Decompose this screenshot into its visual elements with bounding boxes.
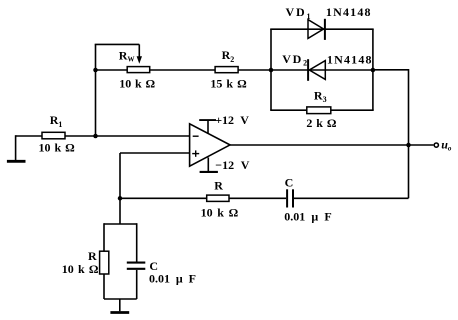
wire [408, 69, 410, 198]
wire [120, 197, 286, 199]
node output [406, 143, 411, 148]
wire [136, 223, 138, 261]
wire [15, 135, 17, 160]
wire [119, 299, 121, 311]
wire [104, 298, 137, 300]
svg-text:2 k Ω: 2 k Ω [306, 116, 336, 130]
svg-text:C: C [285, 176, 294, 190]
wire [270, 29, 272, 110]
svg-text:0.01 μ F: 0.01 μ F [284, 210, 332, 224]
svg-text:−12 V: −12 V [215, 158, 249, 172]
wire [136, 270, 138, 299]
resistor R1 [42, 132, 65, 139]
node inverting input [93, 134, 98, 139]
svg-text:+12 V: +12 V [215, 113, 249, 127]
wire [373, 69, 409, 71]
svg-text:15 k Ω: 15 k Ω [210, 76, 247, 90]
resistor R3 [307, 107, 331, 114]
resistor R2 [215, 67, 238, 73]
svg-text:10 k Ω: 10 k Ω [119, 76, 155, 90]
node feedback left [93, 68, 98, 73]
resistor R series [207, 195, 229, 201]
svg-text:1N4148: 1N4148 [327, 52, 373, 66]
svg-text:1N4148: 1N4148 [326, 5, 372, 19]
wire [372, 29, 374, 110]
capacitor C series [287, 189, 293, 207]
wire [119, 153, 121, 224]
svg-text:10 k Ω: 10 k Ω [201, 206, 239, 220]
wire [96, 69, 272, 71]
wire [104, 223, 137, 225]
resistor R parallel [100, 251, 109, 274]
svg-text:R: R [88, 249, 97, 263]
output terminal u_o [434, 143, 438, 147]
wire [16, 135, 190, 137]
ground [110, 311, 129, 314]
diode VD2 [308, 59, 325, 81]
wire [95, 43, 140, 45]
wire [294, 197, 409, 199]
svg-text:0.01 μ F: 0.01 μ F [149, 272, 196, 286]
svg-text:R: R [214, 179, 223, 193]
wire [271, 69, 373, 71]
wire [103, 223, 105, 299]
svg-text:10 k Ω: 10 k Ω [62, 262, 99, 276]
capacitor C parallel [127, 263, 146, 269]
node diode block right [371, 68, 376, 73]
-12 V supply [200, 158, 218, 172]
ground [7, 160, 26, 163]
wire [120, 152, 190, 154]
svg-text:10 k Ω: 10 k Ω [39, 141, 76, 155]
wire [270, 109, 374, 111]
op-amp U1 [190, 124, 230, 166]
wire [270, 28, 374, 30]
node noninverting branch [118, 196, 123, 201]
+12 V supply [199, 120, 216, 134]
potentiometer RW [127, 44, 150, 72]
wire [95, 44, 97, 136]
node diode block left [269, 68, 274, 73]
wire [230, 144, 433, 146]
diode VD1 [308, 19, 325, 40]
